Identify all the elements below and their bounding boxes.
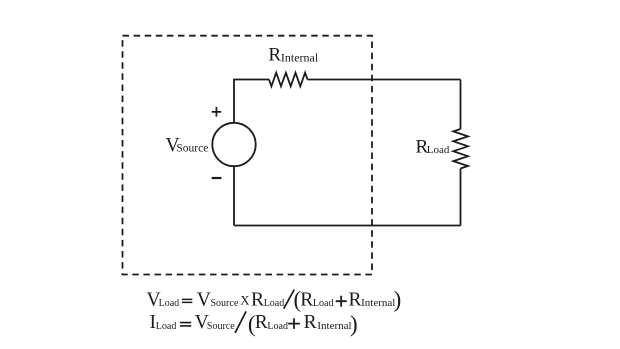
voltage source circle V_Source <box>212 123 255 166</box>
svg-text:R: R <box>349 289 362 310</box>
svg-text:Load: Load <box>427 144 450 156</box>
svg-text:Load: Load <box>267 321 288 332</box>
svg-text:Load: Load <box>159 298 180 309</box>
wire: source top terminal up to top rail <box>234 80 269 124</box>
svg-text:Load: Load <box>264 298 285 309</box>
wire: bottom rail <box>234 225 461 227</box>
svg-text:Internal: Internal <box>361 297 395 309</box>
svg-text:Load: Load <box>313 298 334 309</box>
svg-text:Source: Source <box>207 321 235 332</box>
resistor R_Internal <box>269 73 308 87</box>
equation line 2: I_Load = V_Source/(R_Load + R_Internal) <box>150 311 358 336</box>
wire: right side down to R_Load <box>460 80 462 130</box>
label R_Internal <box>268 45 318 66</box>
label V_Source <box>166 135 209 156</box>
svg-text:V: V <box>197 289 211 310</box>
minus polarity mark <box>212 177 222 179</box>
svg-text:Internal: Internal <box>317 320 351 332</box>
dashed Thevenin source boundary box <box>123 36 373 275</box>
svg-text:R: R <box>304 312 317 333</box>
wire: bottom-left up to source bottom terminal <box>233 166 235 226</box>
resistor R_Load <box>453 129 468 169</box>
svg-text:R: R <box>251 289 264 310</box>
svg-text:R: R <box>268 45 281 66</box>
svg-text:R: R <box>300 289 313 310</box>
wire: R_Internal to top-right corner <box>308 79 461 81</box>
svg-text:Internal: Internal <box>281 50 319 64</box>
svg-text:X: X <box>240 294 249 308</box>
wire: R_Load down to bottom-right corner <box>460 169 462 226</box>
svg-text:Load: Load <box>156 321 177 332</box>
equation line 1: V_Load = V_Source x R_Load/(R_Load + R_Internal) <box>147 287 402 312</box>
svg-text:Source: Source <box>211 298 239 309</box>
svg-text:): ) <box>394 287 402 312</box>
label R_Load <box>416 136 450 157</box>
svg-text:Source: Source <box>176 143 208 155</box>
svg-text:): ) <box>350 311 358 336</box>
plus polarity mark <box>212 107 222 117</box>
svg-text:R: R <box>255 312 268 333</box>
